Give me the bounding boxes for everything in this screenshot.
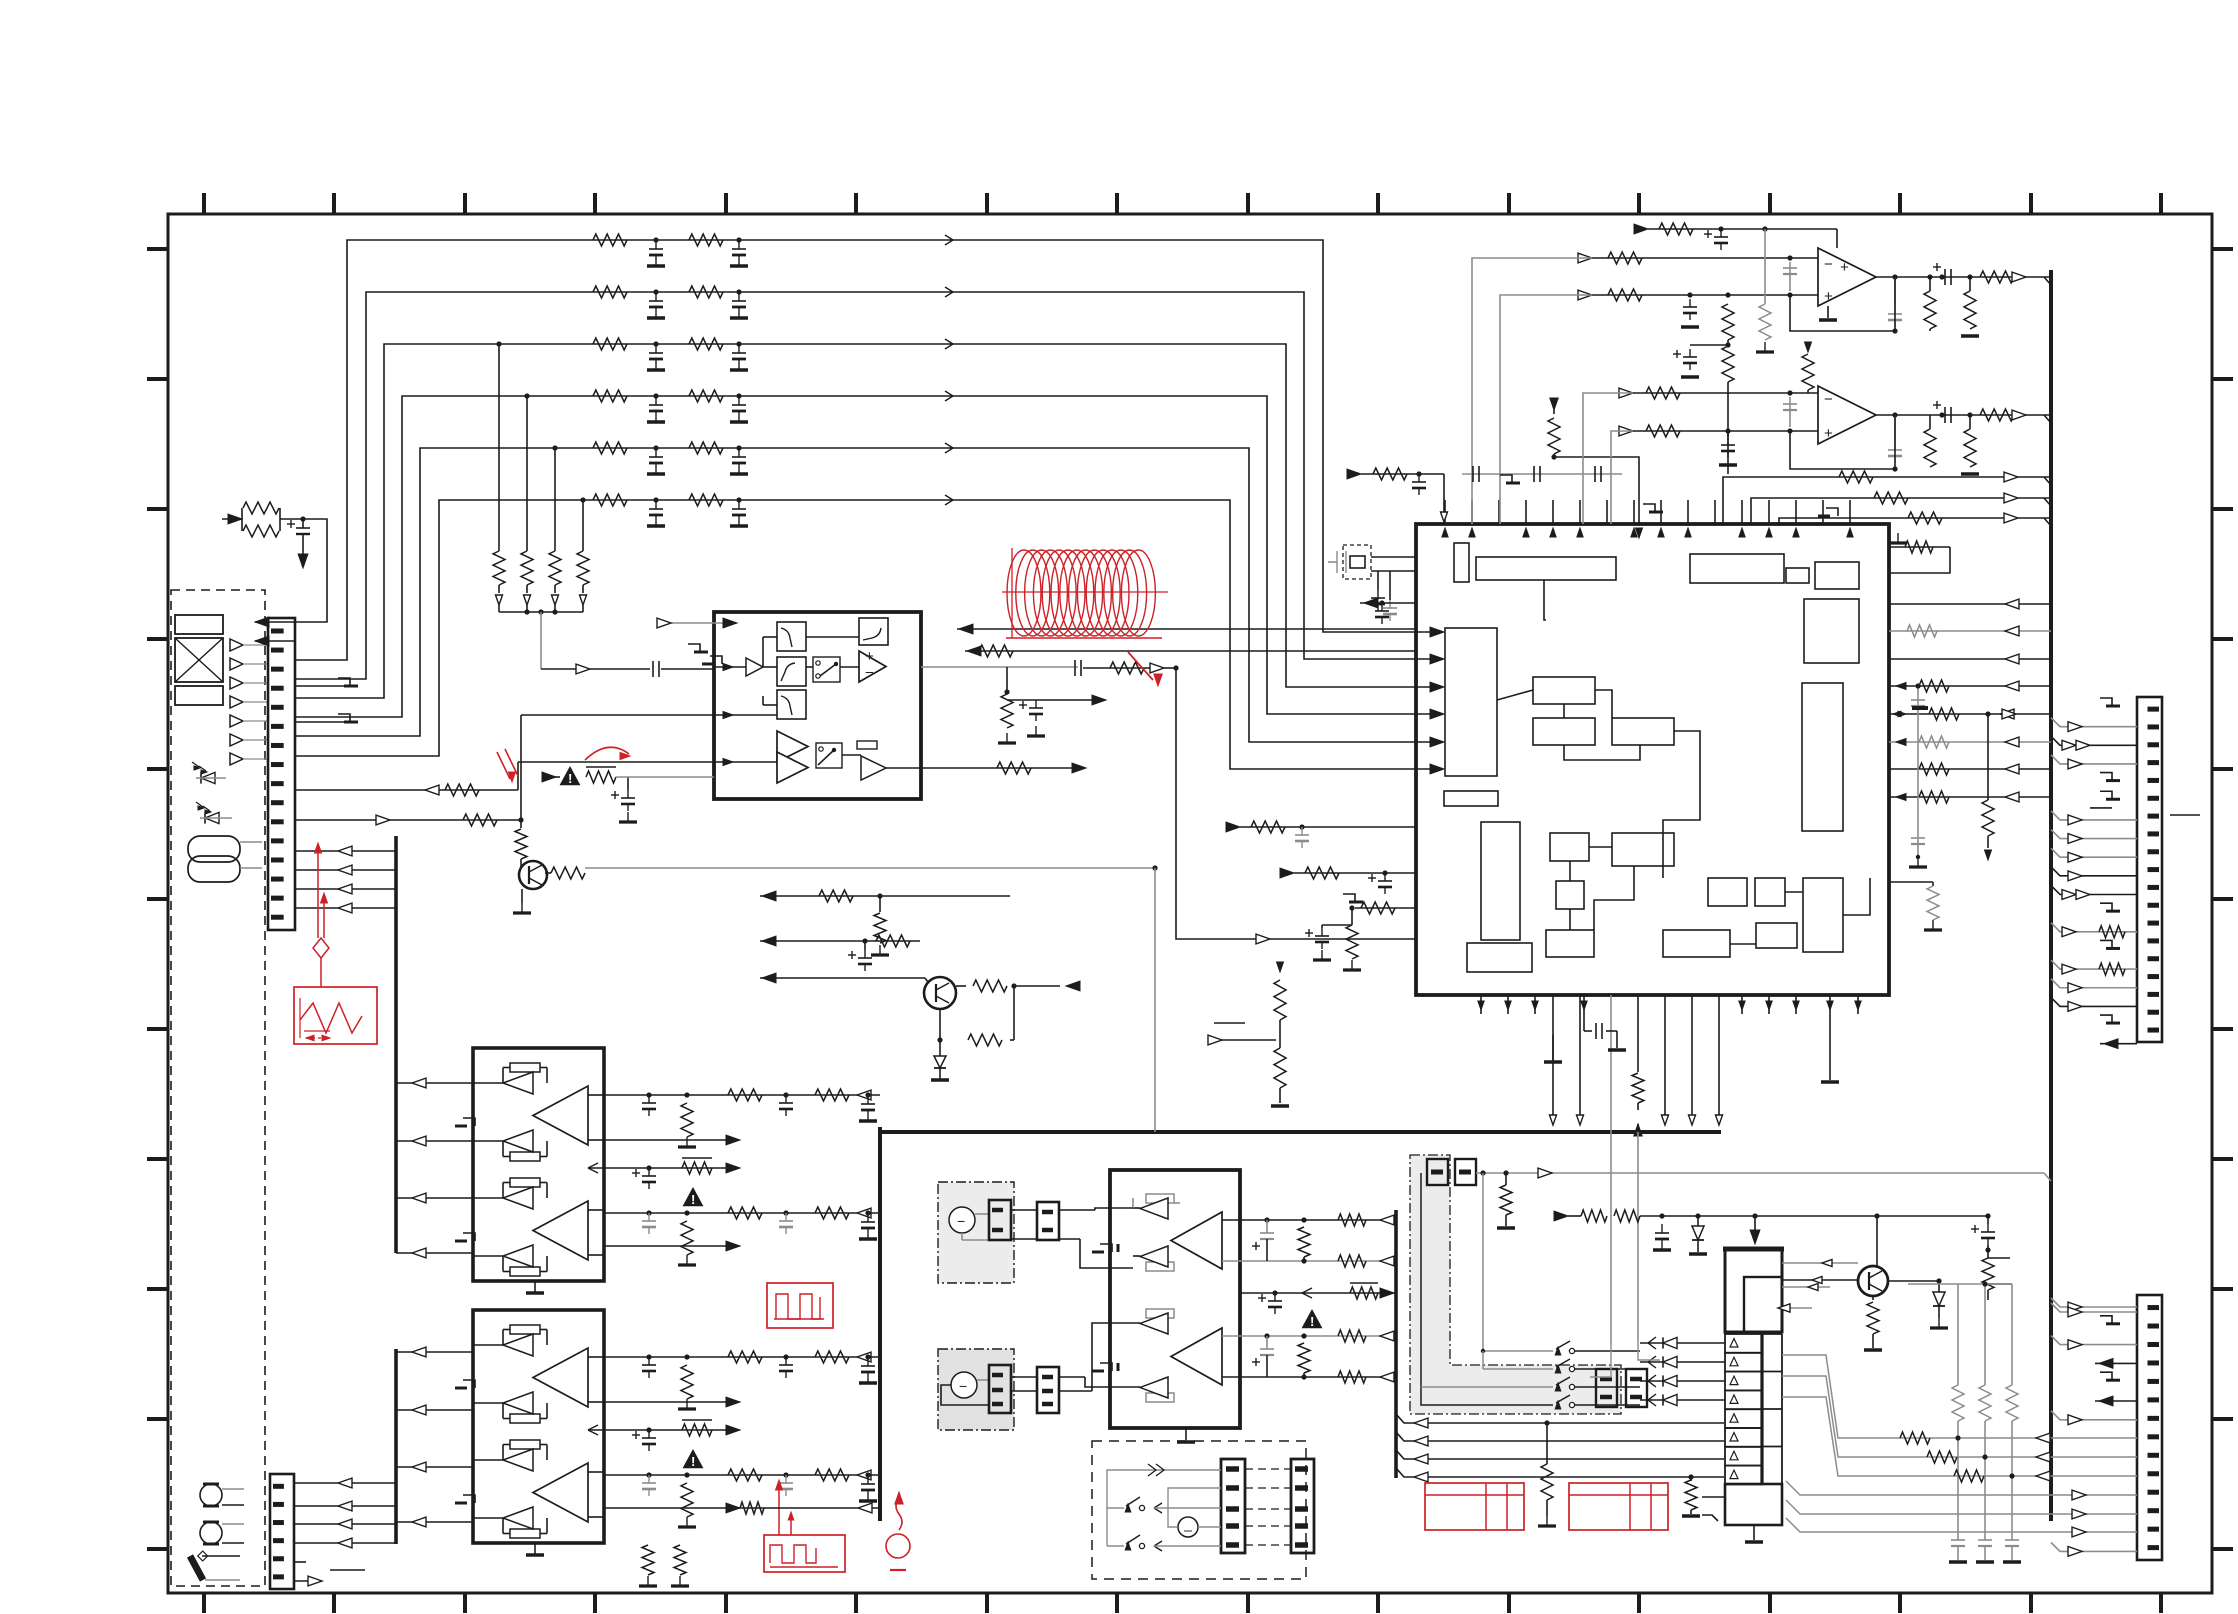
red waveform box B [764, 1535, 845, 1572]
sensor source B601 [1178, 1517, 1198, 1537]
laser diode D1 [201, 772, 215, 783]
step symbols near IC top [1643, 504, 1655, 512]
sense wire 1 [1472, 258, 1592, 524]
arrows on IC right lines [1896, 683, 1906, 690]
clamp diodes D601-D604 [1640, 1342, 1725, 1344]
svg-text:−: − [1824, 256, 1833, 273]
wires bus to amp IC302 inputs [396, 1351, 473, 1353]
servo equalizer block IC201 [714, 612, 921, 799]
svg-text:!: ! [691, 1192, 695, 1207]
resistor R610 [1982, 1258, 1994, 1290]
motor unit M601 enclosure [938, 1182, 1014, 1283]
ground step on pin wire 2 [295, 721, 350, 723]
switch S601 [1107, 1507, 1124, 1509]
duct wire 4 [1421, 1386, 1553, 1388]
wire bus line 5 [295, 448, 1438, 742]
cable duct shading [1410, 1155, 1621, 1414]
emitter resistor [1872, 1296, 1874, 1300]
crystal X101 [1343, 545, 1371, 579]
IC401A ground [1827, 306, 1829, 318]
sense wire 4 [1611, 431, 1633, 524]
power amp IC302 (spindle/sled driver) [473, 1310, 604, 1543]
level shift network [616, 776, 714, 778]
sense line [1988, 1257, 2010, 1259]
red slash arrows [497, 752, 510, 779]
connector CN602b [1037, 1367, 1059, 1413]
IC401B input 2 [1619, 426, 1633, 436]
border frame [168, 214, 2212, 1593]
IC left exit b [1360, 602, 1416, 604]
wire with resistor into IC a [1226, 822, 1240, 832]
resistor-capacitor filter on bus line 4 [593, 390, 627, 402]
amp IC301 output network [604, 1094, 880, 1096]
step grounds at IC302 inputs [463, 1380, 475, 1388]
red coil annotation [1007, 550, 1041, 636]
decoupling C/R [1321, 925, 1323, 928]
divider caps and resistors [1689, 299, 1691, 307]
parallel resistor R101 [228, 514, 242, 524]
motor driver IC601 [1110, 1170, 1240, 1428]
IC401B input cap [1789, 397, 1791, 427]
wires stack to CN502 lower pins [1786, 1481, 2137, 1495]
bold wire bus left upper [394, 836, 398, 1253]
duct wire 1 [1421, 1173, 1553, 1405]
wires M601 to driver [1011, 1209, 1037, 1211]
wire bus line 4 [295, 396, 1438, 717]
IC401B caps [1727, 431, 1729, 437]
aux wires to right bus [1723, 477, 2013, 524]
duct pull resistor [1500, 1185, 1512, 1215]
wire mute 2 [760, 940, 920, 942]
IC101 to power bus wires [1552, 995, 1554, 1118]
warning mark 3 [560, 766, 581, 785]
svg-text:!: ! [568, 771, 572, 786]
return wires DSP to equalizer [957, 628, 1416, 630]
connector CN604 [1291, 1459, 1314, 1553]
wire to servo filter input [540, 612, 542, 669]
warning mark 1 [683, 1187, 704, 1206]
wire bus line 6 [295, 500, 1438, 769]
IC401A feedback [1790, 277, 1895, 331]
divider resistor 1 [1544, 1420, 1549, 1425]
power amp IC301 (focus/tracking driver) [473, 1048, 604, 1281]
connector CN601a [989, 1200, 1011, 1240]
resistor R217 [939, 1009, 941, 1040]
bias network below equalizer [1004, 689, 1009, 694]
wire ASY to bus [1154, 868, 1156, 1132]
IC401A input 1 [1578, 253, 1592, 263]
wire VCO with resistor [1347, 469, 1361, 479]
wire bus line 1 [295, 240, 1438, 660]
return arrows to pickup [255, 621, 295, 623]
node join bar of pull-down resistors [499, 611, 583, 613]
red measurement probe lines [317, 846, 319, 938]
bold wire bus left lower [394, 1349, 398, 1544]
wire ASY long [585, 867, 1155, 869]
bold wire vertical driver bus [1394, 1210, 1398, 1478]
IC101 top pin stubs [1444, 500, 1446, 524]
sense wire 2 [1500, 295, 1592, 524]
capacitor C205 [627, 777, 629, 790]
wire stack control [1638, 1340, 1660, 1360]
wires M602 to driver [1011, 1376, 1037, 1378]
wire with step into IC [1343, 894, 1355, 902]
resistor pull-down on bus line 3 [496, 341, 501, 346]
ground stub right of IC [1829, 1014, 1831, 1080]
capacitor C210 [864, 941, 866, 950]
sense cap string [1917, 686, 1919, 857]
feedback loop top right [1889, 546, 1950, 548]
red timing table 1 [1425, 1483, 1524, 1530]
bold wire vertical center [878, 1127, 882, 1521]
zener diode D201 [939, 1040, 941, 1056]
RC columns bottom right [1957, 1284, 1959, 1385]
bus join jogs [2044, 277, 2051, 285]
bias line [1908, 1283, 2012, 1285]
limit switch unit enclosure [1092, 1441, 1306, 1579]
ground step on pin wire 1 [295, 685, 350, 687]
wire TE [520, 820, 522, 828]
stub pin 5 [294, 1561, 306, 1563]
duct connector D [1626, 1369, 1647, 1407]
resistor to gnd right [1889, 881, 1933, 883]
IC401A input cap [1789, 262, 1791, 291]
limit switches S603-S606 [1555, 1347, 1561, 1355]
svg-text:−: − [957, 1213, 965, 1229]
pull resistor w arrow [1987, 714, 1989, 800]
IC401B feedback [1790, 415, 1895, 469]
svg-text:−: − [1824, 391, 1833, 408]
IC401B output [1876, 414, 2051, 416]
red waveform box A [767, 1283, 833, 1328]
switch lever [190, 1556, 203, 1580]
connector CN102 [270, 1474, 294, 1589]
series caps on sense wires [1462, 473, 1622, 475]
zener D605 [1697, 1216, 1699, 1226]
wire bus line 3 [295, 344, 1438, 698]
wire equalizer to DSP [1176, 668, 1290, 939]
wire to bus from IC302 lower output [737, 1507, 880, 1509]
red arc annotation [585, 747, 629, 760]
capacitor C101 [302, 519, 304, 528]
stub right of CN501 [2170, 814, 2200, 816]
connector CN101 [268, 618, 295, 930]
connector CN501 [2137, 697, 2162, 1042]
resistor pull-down on bus line 4 [524, 393, 529, 398]
IC401B input 1 [1619, 388, 1633, 398]
focus-tracking coil [188, 836, 240, 862]
resistor pull-down on bus line 6 [580, 497, 585, 502]
duct wire 3 [1483, 1368, 1553, 1370]
bias resistor with bar [586, 771, 616, 783]
photodiode array triangles [230, 639, 243, 651]
driver IC601 output networks [1240, 1219, 1396, 1221]
svg-text:+: + [865, 648, 874, 665]
jack J2 [200, 1522, 222, 1544]
equalizer input wire 3 [518, 761, 714, 763]
step ground IC601 in2 [1100, 1363, 1112, 1371]
red sawtooth waveform box [294, 987, 377, 1044]
motor M601 [949, 1207, 975, 1233]
gray verticals to switch area [1610, 995, 1612, 1345]
wires from lower connector to bus [294, 1482, 396, 1484]
supply resistor Vref [1550, 398, 1558, 410]
resistor-capacitor filter on bus line 2 [593, 286, 627, 298]
electrolytic C602 [1987, 1216, 1989, 1224]
wires driver bus to IC602 [1396, 1414, 1724, 1423]
supply resistor vertical [1805, 342, 1812, 352]
resistor-capacitor filter on bus line 3 [593, 338, 627, 350]
IC401A input 2 [1578, 290, 1592, 300]
supply into stack [1754, 1216, 1756, 1232]
resistor pull-down on bus line 5 [552, 445, 557, 450]
trimmer feed [1214, 1039, 1276, 1041]
duct connector C [1596, 1369, 1617, 1407]
resistor R215 [879, 896, 881, 912]
IC401A output [1876, 276, 2051, 278]
switch S602 [1107, 1545, 1124, 1547]
supply wire bottom right [1554, 1211, 1568, 1221]
red timing table 2 [1569, 1483, 1668, 1530]
wire to connector pin 1 [296, 519, 327, 622]
duct wire to bus [1476, 1172, 2044, 1174]
servo equalizer lower stage [777, 731, 808, 762]
step symbols at equalizer input [688, 644, 700, 652]
svg-text:!: ! [691, 1454, 695, 1469]
bias resistors below IC302 [642, 1545, 654, 1575]
wires bus to amp IC301 inputs [396, 1082, 473, 1084]
motor unit M602 enclosure [938, 1349, 1014, 1430]
svg-text:−: − [959, 1378, 967, 1394]
connector CN601b [1037, 1202, 1059, 1240]
svg-text:−: − [865, 664, 874, 681]
thick cap mark [1912, 706, 1928, 710]
capacitor C601 [1661, 1224, 1663, 1233]
divider resistor 2 [1688, 1474, 1693, 1479]
wires right bus to connector CN501 [2100, 698, 2112, 706]
resistor R209 [515, 829, 527, 859]
op-amp IC401B [1818, 386, 1876, 444]
connector CN603 [1221, 1459, 1245, 1553]
step grounds at IC301 inputs [463, 1118, 475, 1126]
monitor diode D2 [205, 812, 219, 823]
reference resistor [1240, 1292, 1396, 1294]
wire tracking error with resistor [295, 819, 521, 821]
zener D606 [1938, 1281, 1940, 1292]
stack stubs [1702, 1496, 1725, 1498]
wire duct to CN502 [2051, 1303, 2137, 1312]
decoupling at IC bottom [1583, 1014, 1585, 1031]
resistor-capacitor filter on bus line 5 [593, 442, 627, 454]
connector CN602a [989, 1365, 1011, 1413]
short cal line [1214, 1022, 1245, 1024]
duct wire 2 [1483, 1173, 1553, 1351]
connector CN502 [2137, 1295, 2162, 1560]
IC401A supply [1634, 224, 1648, 234]
power arrow on bus [1637, 995, 1639, 1072]
svg-text:+: + [1824, 425, 1833, 442]
jack J1 [200, 1484, 222, 1506]
duct connector A [1427, 1159, 1448, 1185]
step ground IC601 in1 [1100, 1244, 1112, 1252]
svg-text:+: + [1824, 288, 1833, 305]
wire focus error with resistor [295, 789, 518, 791]
wire mute 3 [760, 977, 925, 979]
equalizer output RC [1074, 660, 1076, 676]
transistor Q201 [519, 861, 547, 889]
wire pin 6 with arrow [294, 1580, 318, 1582]
sensor loop wire [1168, 1488, 1221, 1527]
warning mark 2 [683, 1449, 704, 1468]
IC101 bottom pin stubs [1480, 995, 1482, 1014]
transistor Q202 [924, 977, 956, 1009]
wires IC101 to right bus [1889, 603, 2051, 605]
driver transistor array IC602 [1725, 1249, 1782, 1332]
wire mute 1 [760, 895, 1010, 897]
duct connector B [1455, 1159, 1476, 1185]
photodetector block [175, 615, 223, 634]
wires stack top to transistor [1782, 1262, 1858, 1264]
transistor Q601 [1858, 1266, 1888, 1296]
warning mark 4 [1302, 1309, 1323, 1328]
resistor-capacitor filter on bus line 1 [593, 234, 627, 246]
resistor R210 [551, 867, 585, 879]
bold wire right bus [2049, 270, 2053, 1521]
amp IC302 output network [604, 1356, 880, 1358]
resistor-capacitor filter on bus line 6 [593, 494, 627, 506]
op-amp IC401A [1818, 248, 1876, 306]
optical pickup dashed enclosure [171, 590, 265, 1586]
supply arrow [302, 544, 304, 556]
feedback resistor network [921, 666, 1078, 668]
wires to connector CN502 [2051, 1298, 2137, 1307]
wire bus line 2 [295, 292, 1438, 679]
wires from pickup connector to amp bus [295, 850, 396, 852]
red test point TP1 [895, 1492, 903, 1504]
svg-text:!: ! [1310, 1314, 1314, 1329]
IC401B output caps [1894, 415, 1896, 442]
wire with resistor into IC b [1280, 868, 1294, 878]
interconnect dashes CN603-CN604 [1245, 1468, 1291, 1470]
motor sense wires to CN502 [1782, 1355, 2137, 1438]
IC401A output caps [1894, 277, 1896, 306]
sense wire 3 [1583, 393, 1633, 524]
resistor R216 [973, 980, 1007, 992]
motor M602 [951, 1372, 977, 1398]
wire driver stack feed 1 [1590, 1345, 1611, 1377]
DSP/servo processor IC101 [1416, 524, 1889, 995]
trimmer resistor VR101 [1277, 962, 1284, 972]
unit feed wire [1107, 1470, 1221, 1546]
equalizer input wire 2 [521, 714, 714, 716]
svg-text:+: + [1840, 259, 1849, 276]
lower output resistor [921, 767, 1080, 769]
bold wire horizontal center [880, 1130, 1721, 1134]
